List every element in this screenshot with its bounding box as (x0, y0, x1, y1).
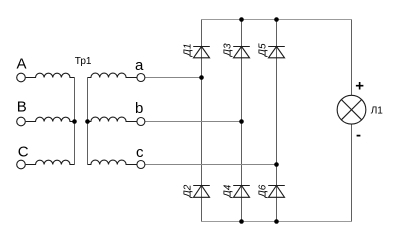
svg-text:+: + (355, 78, 364, 95)
svg-text:B: B (17, 99, 27, 116)
wire bottom bus from D2 branch to lamp branch (202, 221, 352, 223)
winding primary A (26, 73, 75, 77)
terminal B (17, 117, 26, 126)
winding secondary c (88, 160, 137, 164)
svg-text:b: b (135, 100, 143, 117)
svg-text:a: a (135, 57, 144, 74)
wire phase c from terminal c to branch 3 (145, 164, 276, 166)
winding secondary b (88, 117, 137, 121)
winding primary C (26, 160, 75, 164)
junction phase b on branch 2 (239, 119, 244, 124)
wire phase a from terminal a to branch 1 (145, 77, 201, 79)
lamp L1 (337, 95, 366, 124)
svg-text:Д6: Д6 (258, 184, 269, 198)
wire secondary star bus (87, 78, 89, 165)
svg-text:Д2: Д2 (183, 184, 194, 198)
winding secondary a (88, 73, 137, 77)
terminal C (17, 160, 26, 169)
winding primary B (26, 117, 75, 121)
svg-text:Л1: Л1 (371, 106, 384, 117)
diode D5 (268, 47, 285, 58)
diode D2 (193, 186, 210, 198)
wire phase b from terminal b to branch 2 (145, 121, 241, 123)
junction top bus branch 3 (274, 17, 279, 22)
wire diode branch 2 vertical (241, 20, 243, 222)
svg-text:C: C (18, 143, 29, 160)
terminal b (137, 118, 145, 126)
junction phase c on branch 3 (274, 162, 279, 167)
diode D3 (233, 47, 250, 58)
junction phase a on branch 1 (199, 75, 204, 80)
wire top bus from D1 branch to lamp branch (202, 19, 352, 21)
svg-text:Д5: Д5 (258, 43, 269, 57)
wire primary star bus (74, 78, 76, 165)
junction secondary bus row b (85, 119, 90, 124)
terminal a (137, 74, 145, 82)
svg-text:Д1: Д1 (183, 43, 194, 57)
diode D1 (193, 47, 210, 58)
wire lamp branch vertical upper segment (351, 20, 353, 96)
diode D4 (233, 186, 250, 198)
svg-text:c: c (136, 144, 144, 161)
svg-text:Д3: Д3 (223, 43, 234, 57)
terminal A (17, 73, 26, 82)
junction primary bus row B (72, 119, 77, 124)
terminal c (137, 161, 145, 169)
svg-text:-: - (356, 126, 361, 143)
svg-text:Тр1: Тр1 (75, 56, 92, 67)
junction bottom bus branch 2 (239, 219, 244, 224)
junction top bus branch 2 (239, 17, 244, 22)
wire diode branch 3 vertical (276, 20, 278, 222)
wire lamp branch vertical lower segment (351, 124, 353, 222)
svg-text:A: A (17, 56, 27, 73)
wire diode branch 1 vertical (201, 20, 203, 222)
junction bottom bus branch 3 (274, 219, 279, 224)
svg-text:Д4: Д4 (223, 184, 234, 198)
diode D6 (268, 186, 285, 198)
